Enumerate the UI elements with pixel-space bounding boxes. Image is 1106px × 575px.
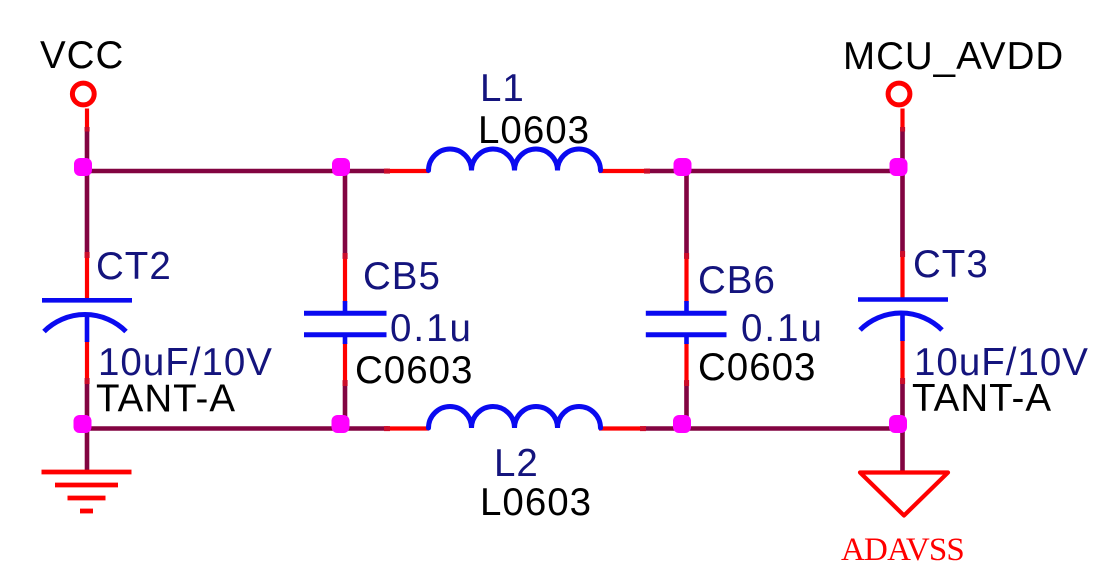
label footprint CT3 TANT-A bbox=[912, 377, 1052, 420]
wire CT2 vertical (cap to bottom rail) bbox=[85, 380, 90, 430]
wire end marker VCC pin bbox=[85, 127, 90, 132]
label value CT3 10uF/10V bbox=[914, 341, 1089, 384]
svg-text:TANT-A: TANT-A bbox=[96, 378, 236, 421]
svg-text:CT2: CT2 bbox=[96, 245, 172, 288]
pin CB5 pin2 bbox=[343, 343, 347, 385]
pin CB6 pin1 bbox=[684, 257, 688, 303]
pin MCU_AVDD port pin bbox=[900, 109, 904, 130]
wire end marker CT2 pin1 bbox=[85, 252, 90, 258]
svg-text:ADAVSS: ADAVSS bbox=[841, 532, 964, 568]
capacitor CB6 plate1 bbox=[646, 311, 727, 316]
wire end marker CB5 pin1 bbox=[343, 253, 348, 259]
capacitor CB6 bottom lead bbox=[684, 334, 689, 344]
junction node MCU_AVDD / top rail bbox=[890, 158, 908, 176]
wire bottom rail right (L2 pin2 to ADAVSS node) bbox=[644, 426, 905, 431]
ground symbol GND bar2 bbox=[55, 483, 118, 488]
label value CB5 0.1u bbox=[390, 307, 473, 350]
capacitor CT2 curved plate bbox=[44, 315, 126, 332]
label net ADAVSS bbox=[841, 532, 964, 568]
wire bottom rail left (GND node to CB5 bottom) bbox=[85, 426, 388, 431]
wire end marker CB6 pin1 bbox=[684, 253, 689, 259]
capacitor CT2 top plate bbox=[42, 298, 132, 303]
label reference L1 bbox=[480, 67, 525, 110]
label footprint CB5 C0603 bbox=[355, 349, 473, 392]
capacitor CT3 curved plate bbox=[860, 313, 942, 330]
wire VCC vertical (port to top rail) bbox=[85, 127, 90, 258]
capacitor CT3 top plate bbox=[858, 297, 948, 302]
junction node CB6 / bottom rail bbox=[673, 415, 691, 433]
pin CB5 pin1 bbox=[343, 257, 347, 303]
junction node ADAVSS / bottom rail bbox=[889, 415, 907, 433]
pin CT2 pin1 bbox=[85, 256, 89, 302]
label value CB6 0.1u bbox=[741, 307, 824, 350]
port VCC circle bbox=[72, 83, 94, 105]
junction node CB6 / top rail bbox=[674, 158, 692, 176]
pin L1 pin1 bbox=[386, 169, 429, 173]
ground symbol GND bar4 bbox=[80, 509, 93, 514]
junction node GND / bottom rail bbox=[74, 415, 92, 433]
pin CT3 pin1 bbox=[900, 255, 904, 301]
label footprint CT2 TANT-A bbox=[96, 378, 236, 421]
wire end marker L2 pin2 bbox=[640, 426, 646, 431]
wire end marker CB5 pin2 bbox=[343, 380, 348, 386]
inductor L1 coil bbox=[429, 149, 601, 171]
wire MCU_AVDD vertical (port to top rail) bbox=[900, 127, 905, 257]
capacitor CB5 plate1 bbox=[304, 311, 387, 316]
wire top rail left (VCC node to CB5) bbox=[85, 169, 388, 174]
label reference CT3 bbox=[913, 243, 989, 286]
svg-text:MCU_AVDD: MCU_AVDD bbox=[843, 35, 1064, 78]
svg-text:CB6: CB6 bbox=[698, 259, 776, 302]
wire CB5 top vertical bbox=[343, 169, 348, 258]
svg-text:CB5: CB5 bbox=[363, 255, 441, 298]
svg-text:C0603: C0603 bbox=[355, 349, 473, 392]
svg-text:L0603: L0603 bbox=[478, 109, 590, 152]
wire end marker CB6 pin2 bbox=[684, 380, 689, 386]
svg-text:L1: L1 bbox=[480, 67, 525, 110]
label footprint L1 L0603 bbox=[478, 109, 590, 152]
junction node CB5 / top rail bbox=[332, 158, 350, 176]
wire end marker CT3 pin2 bbox=[900, 378, 905, 384]
wire GND stem bbox=[85, 427, 90, 470]
label footprint CB6 C0603 bbox=[698, 346, 816, 389]
label footprint L2 L0603 bbox=[480, 481, 592, 524]
ground symbol GND bar1 bbox=[42, 470, 132, 475]
pin VCC port pin bbox=[85, 109, 89, 130]
wire end marker CT2 pin2 bbox=[85, 378, 90, 384]
pin CT2 pin2 bbox=[85, 341, 89, 382]
port MCU_AVDD circle bbox=[888, 83, 910, 105]
inductor L2 coil bbox=[429, 407, 601, 429]
capacitor CB6 top lead bbox=[684, 301, 689, 314]
junction node VCC / top rail bbox=[74, 158, 92, 176]
pin L1 pin2 bbox=[599, 169, 646, 173]
label reference CT2 bbox=[96, 245, 172, 288]
capacitor CT2 bottom lead bbox=[85, 313, 90, 342]
pin CB6 pin2 bbox=[684, 343, 688, 385]
label value CT2 10uF/10V bbox=[98, 341, 273, 384]
label net MCU_AVDD bbox=[843, 35, 1064, 78]
label reference CB5 bbox=[363, 255, 441, 298]
svg-text:VCC: VCC bbox=[40, 34, 124, 77]
wire end marker L2 pin1 bbox=[384, 426, 390, 431]
ground symbol ADAVSS triangle bbox=[860, 473, 948, 516]
wire end marker CT3 pin1 bbox=[900, 251, 905, 257]
capacitor CB6 plate2 bbox=[646, 332, 727, 337]
svg-text:C0603: C0603 bbox=[698, 346, 816, 389]
svg-text:0.1u: 0.1u bbox=[741, 307, 824, 350]
capacitor CB5 plate2 bbox=[304, 332, 387, 337]
pin L2 pin2 bbox=[599, 426, 644, 430]
wire top rail right (L1 pin2 to MCU_AVDD node) bbox=[646, 169, 905, 174]
capacitor CB5 bottom lead bbox=[343, 334, 348, 344]
wire CB6 bottom vertical bbox=[684, 381, 689, 430]
label net VCC bbox=[40, 34, 124, 77]
pin L2 pin1 bbox=[386, 426, 429, 430]
svg-text:L2: L2 bbox=[494, 442, 539, 485]
junction node CB5 / bottom rail bbox=[332, 415, 350, 433]
wire end marker L1 pin2 bbox=[644, 169, 650, 174]
svg-text:TANT-A: TANT-A bbox=[912, 377, 1052, 420]
wire end marker L1 pin1 bbox=[384, 169, 390, 174]
capacitor CB5 top lead bbox=[343, 301, 348, 314]
wire end marker MCU_AVDD pin bbox=[900, 127, 905, 132]
capacitor CT3 bottom lead bbox=[900, 312, 905, 341]
svg-text:CT3: CT3 bbox=[913, 243, 989, 286]
wire ADAVSS stem bbox=[900, 427, 905, 471]
label reference CB6 bbox=[698, 259, 776, 302]
ground symbol GND bar3 bbox=[68, 496, 106, 501]
wire CB6 top vertical bbox=[684, 169, 689, 258]
svg-text:0.1u: 0.1u bbox=[390, 307, 473, 350]
wire CT3 vertical (cap to bottom rail) bbox=[900, 380, 905, 430]
wire CB5 bottom vertical bbox=[343, 381, 348, 430]
label reference L2 bbox=[494, 442, 539, 485]
svg-text:L0603: L0603 bbox=[480, 481, 592, 524]
pin CT3 pin2 bbox=[900, 340, 904, 382]
